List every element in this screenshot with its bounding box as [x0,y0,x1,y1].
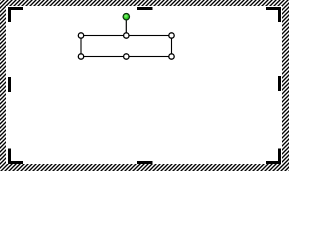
frame mid handle bottom [137,161,153,164]
frame corner handle bottom-left [8,149,23,165]
sizing handle top-center [124,33,129,38]
frame corner handle top-left [8,7,23,22]
sizing handle bottom-right [169,54,174,59]
hatched selection frame [0,0,289,171]
frame mid handle top [137,7,153,10]
sizing handle top-right [169,33,174,38]
rotation handle stem [125,20,127,34]
selected object rectangle [81,36,172,57]
frame mid handle left [8,77,11,92]
sizing handle top-left [78,33,83,38]
sizing handle bottom-left [78,54,83,59]
frame corner handle top-right [266,7,281,22]
frame corner handle bottom-right [266,149,281,165]
sizing handle bottom-center [124,54,129,59]
frame mid handle right [278,76,281,91]
rotation handle (green) [123,14,129,20]
